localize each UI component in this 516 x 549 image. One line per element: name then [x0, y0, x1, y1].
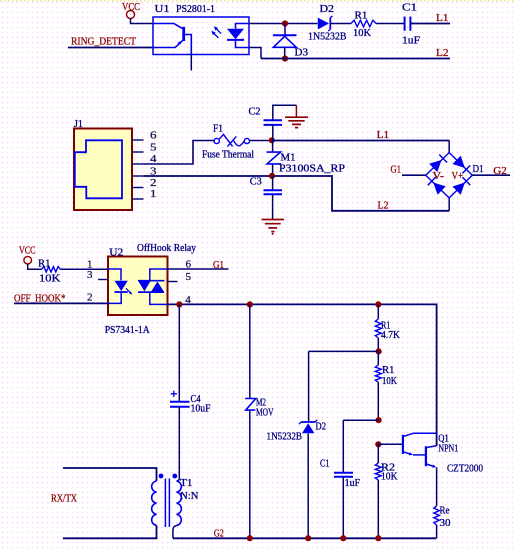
U1 phototransistor: [153, 24, 191, 55]
varistor M2 MOV: [245, 304, 274, 538]
svg-text:1: 1: [150, 188, 157, 200]
svg-text:Fuse Thermal: Fuse Thermal: [202, 150, 254, 161]
wire VCC to U1 pin: [131, 19, 154, 24]
svg-text:Re: Re: [440, 506, 450, 517]
resistor R2 10K: [375, 444, 398, 538]
J1 pin 4: [132, 153, 157, 165]
svg-text:R1: R1: [382, 365, 395, 376]
junction node L2/D3: [282, 55, 288, 61]
sidactor M1: [267, 141, 346, 176]
net label RX/TX: [51, 492, 77, 504]
svg-text:N:N: N:N: [180, 491, 199, 502]
svg-text:5: 5: [186, 271, 192, 283]
wire down to C4: [178, 304, 180, 401]
capacitor C3: [250, 176, 282, 219]
power V- label: [433, 171, 445, 182]
wire RING_DETECT to U1: [68, 47, 153, 49]
resistor R1 10K (bottom): [375, 351, 397, 420]
transformer T1 right winding: [173, 479, 181, 539]
svg-text:U1: U1: [155, 4, 170, 15]
wire VCC to R1: [28, 264, 42, 269]
resistor R1 (top 10K): [351, 11, 376, 39]
svg-text:RX/TX: RX/TX: [51, 492, 77, 504]
bridge label D1: [473, 164, 484, 175]
U2 LED arrow: [126, 288, 132, 294]
wire D2 to R1: [331, 23, 352, 25]
fuse F1: [202, 124, 254, 161]
diode D2 (bottom zener 1N5232B): [267, 420, 327, 538]
junction node M1/C3/pin3: [269, 173, 275, 179]
svg-text:10K: 10K: [39, 273, 61, 284]
U2 pin 6 wire to G1: [168, 259, 229, 271]
J1 pin 3: [132, 165, 157, 177]
wire Q1 base: [378, 443, 402, 445]
capacitor C1 (top 1uF): [402, 3, 420, 47]
junction node rail/D2: [305, 535, 311, 541]
svg-text:L1: L1: [377, 129, 390, 141]
bridge diode upper-right: [453, 156, 471, 174]
svg-text:G1: G1: [391, 164, 402, 176]
wire D3 top lead: [284, 24, 286, 35]
svg-text:10K: 10K: [381, 472, 398, 483]
svg-text:6: 6: [186, 259, 192, 271]
svg-text:T1: T1: [180, 478, 193, 489]
svg-text:1uF: 1uF: [402, 35, 420, 46]
svg-text:4.7K: 4.7K: [381, 330, 400, 341]
svg-text:C1: C1: [402, 3, 417, 14]
wire R1 to U2 pin1: [61, 259, 109, 271]
svg-text:2: 2: [87, 292, 93, 304]
optocoupler U1 designator: [155, 4, 216, 15]
junction node rail/M2: [247, 535, 253, 541]
svg-text:10K: 10K: [382, 376, 397, 387]
svg-text:NPN1: NPN1: [438, 444, 458, 455]
wire U1 out bottom to L2: [249, 48, 261, 59]
junction node L1/D3: [282, 20, 288, 26]
svg-text:10uF: 10uF: [191, 403, 211, 414]
svg-text:1uF: 1uF: [345, 478, 361, 489]
net label RING_DETECT: [71, 36, 136, 48]
svg-text:RING_DETECT: RING_DETECT: [71, 36, 136, 48]
ground (C2): [285, 105, 308, 127]
wire to C1: [343, 420, 378, 472]
svg-text:1N5232B: 1N5232B: [308, 32, 347, 43]
net label L1 (top): [436, 12, 449, 24]
svg-text:OffHook Relay: OffHook Relay: [137, 243, 197, 254]
transistor Q1 (darlington): [403, 433, 483, 474]
wire R1 to C1: [376, 23, 404, 25]
bridge diode lower-right: [453, 177, 471, 195]
svg-text:3: 3: [87, 269, 93, 281]
power VCC (U2): [19, 245, 36, 265]
svg-text:2: 2: [150, 177, 157, 189]
svg-text:PS7341-1A: PS7341-1A: [105, 325, 150, 336]
svg-text:C1: C1: [320, 459, 330, 470]
junction node R1 column top: [375, 301, 381, 307]
svg-text:MOV: MOV: [256, 408, 274, 419]
J1 pin 5: [132, 141, 157, 153]
svg-text:V+: V+: [452, 171, 464, 182]
wire J1 pin3 to L2 run: [144, 176, 450, 211]
svg-text:D1: D1: [473, 164, 484, 175]
svg-text:M2: M2: [256, 397, 266, 408]
svg-text:1N5232B: 1N5232B: [267, 432, 303, 443]
svg-text:V-: V-: [433, 171, 445, 182]
net label OFF_HOOK*: [14, 293, 66, 305]
transformer T1 labels: [180, 478, 199, 502]
wire bridge bottom riser: [448, 198, 450, 211]
svg-text:M1: M1: [281, 153, 296, 164]
svg-text:P3100SA_RP: P3100SA_RP: [279, 164, 345, 175]
svg-text:L2: L2: [378, 200, 389, 212]
wire L1 run (mid): [272, 140, 449, 142]
J1 pin 6: [132, 129, 157, 141]
junction node zener tap: [376, 348, 382, 354]
svg-text:PS2801-1: PS2801-1: [176, 4, 215, 15]
wire G1 stub: [402, 174, 426, 176]
connector J1 designator: [74, 119, 83, 130]
net label G2 (rail): [214, 528, 224, 540]
wire OFF_HOOK to U2 pin2: [14, 292, 108, 304]
junction node C1 tap: [376, 417, 382, 423]
junction node rail/C1: [340, 535, 346, 541]
svg-text:L1: L1: [436, 12, 449, 24]
power V+ label: [452, 171, 464, 182]
svg-text:R1: R1: [38, 258, 51, 269]
net label L2 (top): [436, 47, 449, 59]
wire U1 out top to L1 chain: [249, 23, 318, 25]
U1 light arrows: [211, 26, 221, 38]
power VCC (top): [122, 1, 140, 19]
wire D3 bottom lead: [284, 48, 286, 59]
wire J1 pin4 to F1: [144, 141, 215, 165]
U1 LED: [227, 24, 249, 48]
transformer T1 core: [165, 479, 169, 528]
wire G2 stub: [472, 174, 510, 176]
wire bridge top riser: [448, 141, 450, 153]
bridge rectifier D1 diamond: [426, 153, 473, 198]
capacitor C2: [249, 105, 297, 140]
U2 pin 3 stub: [87, 269, 108, 281]
svg-text:D2: D2: [316, 422, 327, 433]
net label L1 (mid): [377, 129, 390, 141]
svg-text:G2: G2: [214, 528, 224, 540]
wire G2 rail: [173, 537, 437, 539]
svg-text:CZT2000: CZT2000: [447, 463, 483, 474]
U2 pin 4 rail: [168, 294, 437, 446]
U2 triac: [138, 269, 168, 304]
wire to D2 zener: [309, 351, 379, 421]
net label L2 (mid): [378, 200, 389, 212]
junction node C2/M1/L1: [269, 137, 275, 143]
J1 pin 1: [132, 188, 157, 200]
svg-text:10K: 10K: [353, 28, 371, 39]
transformer T1 left winding: [63, 468, 157, 538]
relay U2 body: [108, 257, 168, 316]
resistor R1 4.7K: [375, 304, 400, 351]
svg-text:C2: C2: [249, 107, 261, 118]
svg-text:D3: D3: [295, 48, 309, 59]
wire C1 to L1: [411, 23, 450, 25]
svg-text:F1: F1: [213, 124, 223, 135]
svg-text:Q1: Q1: [438, 433, 449, 444]
U2 pin 5 stub: [168, 271, 192, 283]
svg-text:R1: R1: [355, 11, 368, 22]
capacitor C1 (bottom 1uF): [320, 459, 360, 539]
svg-text:VCC: VCC: [19, 245, 36, 257]
junction node M2 column: [247, 301, 253, 307]
wire Re to G2 rail: [436, 525, 438, 538]
wire L2 run (top): [261, 58, 450, 60]
bridge diode upper-left: [429, 155, 447, 173]
optocoupler U1 body: [153, 17, 249, 55]
svg-text:G1: G1: [213, 259, 224, 271]
relay U2 designator: [109, 243, 196, 259]
net label G1 (U2): [213, 259, 224, 271]
wire F1 to node: [250, 140, 272, 142]
U2 LED: [108, 269, 128, 303]
relay U2 part number: [105, 325, 150, 336]
svg-text:30: 30: [440, 518, 451, 529]
svg-text:4: 4: [185, 294, 191, 306]
J1 pin 2: [132, 177, 157, 189]
connector J1 body: [74, 129, 132, 211]
bridge diode lower-left: [428, 177, 446, 195]
wire C4 to T1: [178, 407, 180, 479]
resistor Re 30: [434, 506, 451, 529]
net label G2 (bridge): [493, 165, 507, 177]
diode D2 (top zener 1N5232B): [308, 4, 347, 43]
resistor R1 (U2 10K): [38, 258, 61, 284]
svg-text:C3: C3: [250, 177, 262, 188]
junction node C4 column: [176, 301, 182, 307]
transformer T1 polarity dots: [159, 474, 178, 479]
svg-text:L2: L2: [436, 47, 449, 59]
diode D3: [273, 35, 308, 58]
U1 base pin stub (bottom): [190, 55, 192, 71]
junction node Q1 base tap: [375, 441, 381, 447]
svg-text:6: 6: [150, 129, 157, 141]
net label G1 (bridge): [391, 164, 402, 176]
svg-text:5: 5: [150, 141, 157, 153]
ground (C3): [262, 220, 285, 235]
capacitor C4 (10uF polarized): [170, 391, 211, 415]
junction node rail/R2: [375, 535, 381, 541]
svg-text:D2: D2: [320, 4, 335, 15]
wire Q1 emitter to Re: [436, 467, 438, 505]
